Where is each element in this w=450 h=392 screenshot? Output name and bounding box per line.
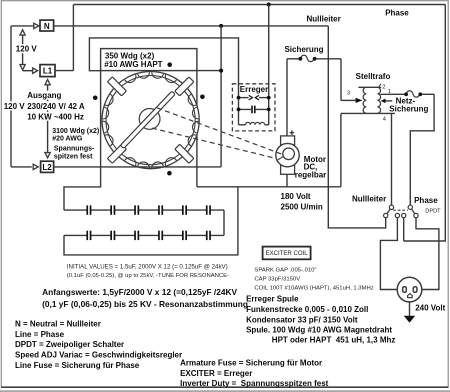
wire exciter right rail [268, 5, 270, 125]
svg-text:120 V: 120 V [4, 102, 26, 111]
wire label box to link junction [197, 70, 221, 72]
svg-text:N = Neutral = Nullleiter: N = Neutral = Nullleiter [15, 319, 101, 328]
variac T1 rotary transformer body [102, 72, 199, 169]
wire variac top link [89, 38, 238, 125]
wire motor negative riser [286, 174, 288, 187]
svg-text:#20 AWG: #20 AWG [52, 136, 83, 143]
wire L1 to riser [55, 70, 73, 72]
svg-text:230/240 V/ 42 A: 230/240 V/ 42 A [27, 102, 85, 111]
ground [409, 302, 411, 316]
svg-text:Kondensator 33 pF/ 3150 Volt: Kondensator 33 pF/ 3150 Volt [246, 316, 358, 325]
svg-text:Stelltrafo: Stelltrafo [356, 72, 391, 81]
wire L2-to-N link [220, 26, 222, 167]
capacitor C2 [110, 205, 115, 215]
wire switch throw to plug right [416, 218, 439, 290]
svg-text:(0,1 yF (0,06-0,25) bis 25 KV: (0,1 yF (0,06-0,25) bis 25 KV - Resonanz… [42, 299, 248, 309]
pin 4 [341, 112, 395, 114]
capacitor C13 exciter [239, 108, 269, 110]
inductor exciter coil [239, 124, 246, 126]
svg-text:3100 Wdg (x2): 3100 Wdg (x2) [52, 128, 99, 135]
svg-text:(0.1uF (0.05-0.25), @ up to 25: (0.1uF (0.05-0.25), @ up to 25kV, -TUNE … [67, 273, 229, 279]
svg-text:EXCITER = Erreger: EXCITER = Erreger [180, 369, 252, 378]
svg-text:Spule. 100 Wdg #10 AWG Magnetd: Spule. 100 Wdg #10 AWG Magnetdraht [246, 326, 392, 335]
wire netz fuse to switch common [410, 94, 434, 205]
capacitor C12 [206, 230, 211, 240]
svg-text:Nullleiter: Nullleiter [352, 195, 386, 204]
wire fuse to stelltrafo T3 [340, 59, 342, 101]
wire L2 row across circle [54, 166, 222, 168]
plug P1 240V outlet [397, 277, 422, 302]
capacitor C6 [206, 205, 211, 215]
svg-text:Phase: Phase [385, 8, 409, 17]
node marker in label box [167, 62, 172, 67]
svg-text:Sicherung: Sicherung [284, 45, 323, 54]
svg-text:Erreger Spule: Erreger Spule [246, 295, 299, 304]
terminal box L1 [40, 65, 55, 77]
wire N rail [54, 25, 329, 27]
label box EXCITER COIL [263, 247, 311, 260]
wire to L2 box [11, 166, 32, 168]
wire to N box [11, 25, 34, 27]
exciter junction dots [237, 96, 241, 100]
capacitor C8 [110, 230, 115, 240]
exciter dashed enclosure [232, 84, 275, 131]
svg-text:Inverter Duty = Spannungsspit: Inverter Duty = Spannungsspitzen fest [180, 379, 329, 388]
wire left supply bus [10, 26, 12, 167]
wire capacitor u-turn [223, 210, 225, 235]
svg-text:Line Fuse = Sicherung für Phas: Line Fuse = Sicherung für Phase [15, 361, 140, 370]
svg-text:L1: L1 [43, 67, 53, 76]
capacitor C4 [158, 205, 163, 215]
svg-text:N: N [44, 22, 50, 31]
capacitor C11 [182, 230, 187, 240]
wire cap bank bottom return [64, 187, 238, 255]
svg-text:Ausgang: Ausgang [27, 91, 61, 100]
svg-text:180 Volt: 180 Volt [281, 192, 311, 201]
capacitor C9 [134, 230, 139, 240]
wire capacitor row 2 [64, 234, 224, 236]
terminal box N [40, 20, 54, 31]
svg-text:HPT oder HAPT 451 uH, 1,3 Mhz: HPT oder HAPT 451 uH, 1,3 Mhz [272, 335, 396, 344]
svg-text:Funkenstrecke 0,005 - 0,010 Zo: Funkenstrecke 0,005 - 0,010 Zoll [246, 305, 368, 314]
capacitor C5 [182, 205, 187, 215]
wire phase top rail [73, 4, 445, 6]
terminal box L2 [41, 161, 54, 172]
capacitor C7 [86, 230, 91, 240]
svg-text:DPDT = Zweipoliger Schalter: DPDT = Zweipoliger Schalter [15, 340, 124, 349]
node phase/exciter junction [267, 3, 271, 7]
wire switch throw to phase rail [403, 218, 405, 241]
capacitor C1 [86, 205, 91, 215]
svg-text:Spannungs-: Spannungs- [54, 146, 95, 153]
wire to L1 box [23, 70, 33, 72]
Ausgang dimension arrow L1-L2 [47, 83, 49, 154]
svg-text:Armature Fuse = Sicherung für: Armature Fuse = Sicherung für Motor [180, 359, 322, 368]
wire T4 to switch common [391, 113, 393, 205]
pin 3 lead with arrow [341, 99, 356, 101]
svg-text:L2: L2 [42, 163, 52, 172]
svg-text:10 KW ~400 Hz: 10 KW ~400 Hz [27, 113, 84, 122]
switch S1 DPDT [384, 205, 419, 218]
capacitor C3 [134, 205, 139, 215]
svg-text:INITIAL VALUES = 1.5uF, 2000V: INITIAL VALUES = 1.5uF, 2000V X 12 (= 0.… [67, 264, 228, 271]
label Ausgang output ratings [26, 91, 61, 100]
wire fuse to motor plus [286, 59, 288, 136]
capacitor C10 [158, 230, 163, 240]
svg-text:spitzen fest: spitzen fest [54, 154, 93, 161]
wire variac left edge down to caps [64, 71, 101, 211]
arrow into L1 [33, 68, 38, 73]
svg-text:DPDT: DPDT [425, 208, 441, 214]
svg-text:350 Wdg (x2): 350 Wdg (x2) [105, 51, 155, 60]
svg-text:Anfangswerte: 1,5yF/2000 V x 1: Anfangswerte: 1,5yF/2000 V x 12 (=0,125y… [42, 287, 237, 297]
svg-text:4: 4 [383, 117, 386, 123]
svg-text:120 V: 120 V [16, 45, 38, 54]
svg-text:240 Volt: 240 Volt [415, 304, 445, 313]
wire main lower bus [197, 186, 341, 188]
svg-text:2: 2 [382, 84, 385, 90]
svg-text:CAP 33pF/3150V: CAP 33pF/3150V [254, 277, 300, 283]
wire switch throw to neutral [328, 26, 385, 228]
node N/L2 junction [219, 24, 223, 28]
spark gap SG1 [239, 97, 249, 99]
wire capacitor row 1 [64, 209, 224, 211]
svg-text:2500 U/min: 2500 U/min [281, 202, 323, 211]
svg-text:regelbar: regelbar [295, 170, 327, 179]
svg-text:Nullleiter: Nullleiter [307, 15, 341, 24]
fuse F2 Netz-Sicherung [406, 91, 420, 97]
svg-text:Line = Phase: Line = Phase [15, 330, 65, 339]
wire phase right rail [404, 5, 446, 242]
wire transformer bottom drop [340, 113, 342, 186]
marker dot bottom [167, 171, 172, 176]
svg-text:Erreger: Erreger [240, 85, 268, 94]
marker dot left [93, 96, 98, 101]
wire variac right edge [196, 71, 198, 187]
svg-text:#10 AWG HAPT: #10 AWG HAPT [104, 60, 162, 69]
wire L1 riser [72, 5, 74, 71]
svg-text:SPARK GAP .005-.010": SPARK GAP .005-.010" [254, 268, 316, 274]
marker dot right [200, 95, 205, 100]
svg-text:EXCITER COIL: EXCITER COIL [266, 251, 309, 257]
svg-text:3: 3 [347, 91, 350, 97]
wire switch throw to plug left [380, 218, 397, 290]
svg-text:Speed ADJ Variac = Geschwindig: Speed ADJ Variac = Geschwindigkeitsregle… [15, 351, 182, 360]
pin 1 lead [380, 93, 404, 95]
120V dimension arrow N-L1 [22, 33, 24, 67]
svg-text:Phase: Phase [414, 196, 438, 205]
arrow into N [34, 23, 39, 28]
svg-text:1: 1 [388, 89, 391, 95]
arrow into L2 [33, 164, 38, 169]
variac label box 350 Wdg [101, 49, 197, 71]
svg-text:Sicherung: Sicherung [389, 104, 428, 113]
motor M1 DC [276, 130, 299, 174]
wiper arrow [385, 100, 392, 102]
svg-text:COIL 100T #10AWG (HAPT), 451uH: COIL 100T #10AWG (HAPT), 451uH, 1.3MHz [254, 286, 373, 292]
node junction at link [219, 69, 223, 73]
dashed shaft coupling to motor [152, 108, 283, 159]
